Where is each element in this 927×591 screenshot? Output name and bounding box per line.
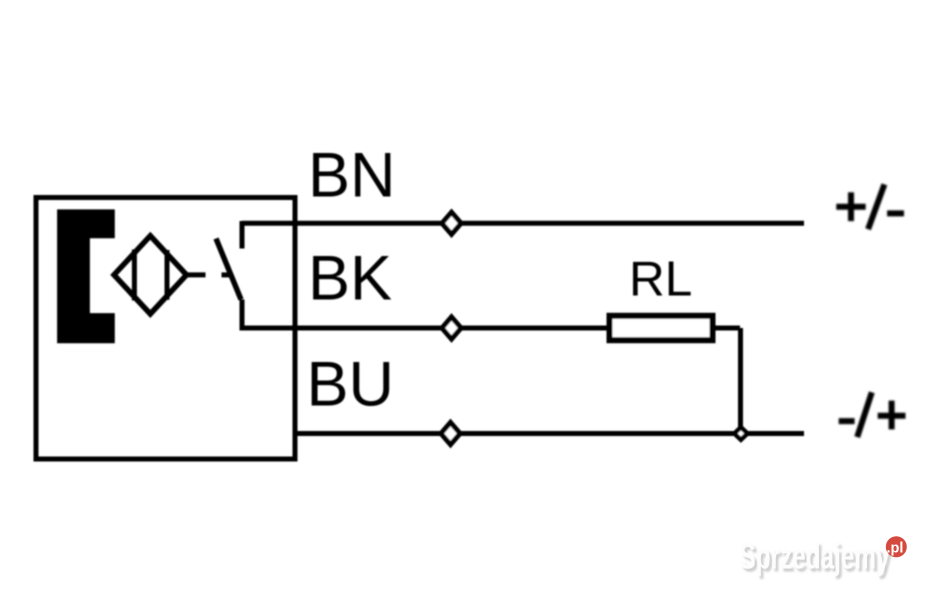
svg-text:BU: BU xyxy=(307,350,395,420)
svg-text:BK: BK xyxy=(308,244,392,314)
svg-text:RL: RL xyxy=(629,252,692,307)
svg-text:.pl: .pl xyxy=(887,541,904,557)
svg-text:Sprzedajemy: Sprzedajemy xyxy=(740,536,890,577)
svg-text:BN: BN xyxy=(308,141,396,211)
